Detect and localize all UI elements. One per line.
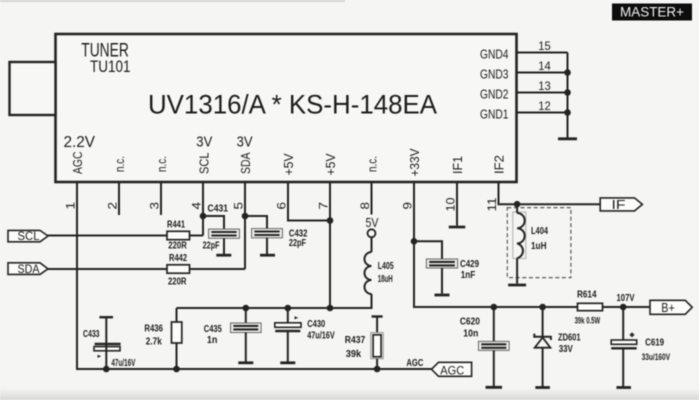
pin 14 wire <box>517 72 568 74</box>
pin 7 wire <box>329 182 331 308</box>
svg-text:11: 11 <box>487 198 499 212</box>
svg-text:1nF: 1nF <box>461 270 476 281</box>
svg-text:B+: B+ <box>661 301 675 315</box>
pin 6 wire to pin 7 <box>288 182 330 221</box>
svg-text:n.c.: n.c. <box>154 156 169 172</box>
svg-text:8: 8 <box>360 202 372 210</box>
junction dot rail C435 <box>243 305 250 312</box>
ground symbol L404 <box>508 284 526 287</box>
svg-text:39k: 39k <box>346 349 362 360</box>
junction dot bus C433 <box>103 366 110 373</box>
wire rail to C619 <box>622 307 624 340</box>
pin 10 wire <box>456 182 458 226</box>
svg-text:C435: C435 <box>204 324 222 335</box>
svg-text:C620: C620 <box>460 317 480 328</box>
svg-text:AGC: AGC <box>406 357 423 369</box>
svg-text:C433: C433 <box>83 329 100 340</box>
pin 8 stub wire <box>371 182 373 215</box>
pin 11 wire to IF <box>499 182 601 204</box>
resistor R442 <box>167 253 190 288</box>
svg-text:SDA: SDA <box>238 152 253 174</box>
pin 3 stub wire <box>160 182 162 215</box>
svg-text:10n: 10n <box>463 329 478 340</box>
gnd bus wire <box>567 53 569 138</box>
svg-text:IF2: IF2 <box>491 155 506 174</box>
svg-text:R437: R437 <box>345 335 366 346</box>
junction dot rail pin7 <box>327 305 334 312</box>
svg-text:12: 12 <box>538 101 551 113</box>
MASTER+ badge <box>612 4 692 21</box>
junction dot gnd bus y=72.5 <box>564 69 571 76</box>
junction dot rail C619 <box>620 304 627 311</box>
svg-text:14: 14 <box>538 61 551 73</box>
svg-text:4: 4 <box>192 201 204 209</box>
svg-text:SCL: SCL <box>18 231 41 243</box>
5V supply terminal <box>366 215 379 237</box>
wire rail to ZD601 <box>542 307 544 337</box>
svg-text:3: 3 <box>150 202 162 210</box>
antenna connector box <box>10 62 56 115</box>
svg-text:GND4: GND4 <box>480 48 509 62</box>
wire C620 to ground <box>493 350 495 386</box>
svg-text:5V: 5V <box>366 215 379 230</box>
SDA input tag <box>8 263 48 276</box>
svg-text:R441: R441 <box>167 219 185 230</box>
svg-text:R436: R436 <box>144 324 163 335</box>
wire C435 to ground <box>245 333 247 362</box>
junction dot pin11 L404 <box>514 201 521 208</box>
svg-text:IF: IF <box>612 198 626 212</box>
wire L405 to left rail and rail to R436 <box>177 294 372 308</box>
pin 5 wire <box>244 182 246 269</box>
wire pin4 to C431 <box>203 216 224 229</box>
junction dot rail C430 <box>285 305 292 312</box>
wire pin5 to C432 <box>245 216 267 229</box>
ground symbol pin10 IF1 <box>449 226 466 229</box>
ground symbol ZD601 <box>535 386 550 389</box>
svg-text:SDA: SDA <box>18 264 40 276</box>
B+ rail right of R614 <box>603 306 651 308</box>
junction dot pin 5 <box>242 213 249 220</box>
pin 13 wire <box>517 92 568 94</box>
svg-text:22pF: 22pF <box>289 238 306 249</box>
svg-text:10: 10 <box>446 198 458 212</box>
svg-text:2.2V: 2.2V <box>64 134 96 151</box>
svg-text:GND2: GND2 <box>480 88 509 102</box>
AGC output tag <box>432 362 472 377</box>
svg-text:22pF: 22pF <box>203 240 220 251</box>
junction dot bus R436 <box>173 366 180 373</box>
wire R436 to bus <box>176 343 178 369</box>
ground symbol C431 <box>216 254 231 257</box>
svg-text:SCL: SCL <box>196 153 211 175</box>
wire rail to C620 <box>493 307 495 341</box>
junction dot pin 4 <box>200 213 207 220</box>
svg-text:C430: C430 <box>307 319 325 330</box>
wire C619 to ground <box>622 349 624 386</box>
svg-text:GND3: GND3 <box>480 68 509 82</box>
svg-text:n.c.: n.c. <box>364 156 379 172</box>
wire rail down to R436 <box>176 308 178 322</box>
tuner TU101 box <box>56 34 517 182</box>
pin 2 stub wire <box>118 182 120 215</box>
capacitor C430 electrolytic <box>275 316 335 341</box>
wire 5V terminal to L405 <box>371 237 373 252</box>
zener diode ZD601 <box>534 332 581 354</box>
capacitor C620 <box>460 317 509 351</box>
resistor R614 <box>575 290 603 326</box>
svg-text:2.7k: 2.7k <box>146 336 162 347</box>
svg-text:1: 1 <box>66 202 78 210</box>
svg-text:220R: 220R <box>168 277 187 288</box>
wire ZD601 to ground <box>542 348 544 387</box>
wire pin9 to C429 <box>414 241 442 259</box>
capacitor C429 <box>426 259 479 281</box>
wire SDA to R442 <box>47 268 167 270</box>
pin 12 wire <box>517 112 568 114</box>
svg-text:47u/16V: 47u/16V <box>307 330 335 341</box>
svg-text:C619: C619 <box>645 338 664 349</box>
ground symbol C435 <box>238 361 253 364</box>
ground symbol C430 <box>280 361 295 364</box>
svg-text:L404: L404 <box>531 226 548 237</box>
capacitor C619 electrolytic <box>611 333 670 362</box>
svg-text:3V: 3V <box>237 135 253 151</box>
dashed box around L404 <box>507 208 571 278</box>
svg-text:GND1: GND1 <box>480 108 509 122</box>
wire R437 to bus <box>376 359 378 369</box>
inductor L404 <box>513 212 549 259</box>
pin 4 wire <box>202 182 204 236</box>
wire R441 to pin 4 <box>190 235 204 237</box>
wire C429 to ground <box>441 268 443 294</box>
svg-text:+33V: +33V <box>407 148 422 176</box>
svg-text:AGC: AGC <box>440 363 464 377</box>
svg-text:2: 2 <box>108 202 120 210</box>
junction dot bus R437 <box>374 366 381 373</box>
wire rail to C435 <box>245 308 247 323</box>
svg-text:47u/16V: 47u/16V <box>111 358 135 369</box>
svg-text:220R: 220R <box>168 241 187 252</box>
svg-text:IF1: IF1 <box>450 156 465 174</box>
svg-text:n.c.: n.c. <box>112 156 127 172</box>
capacitor C435 <box>204 323 261 346</box>
svg-text:1n: 1n <box>207 335 218 346</box>
svg-text:AGC: AGC <box>70 152 85 175</box>
inductor L405 <box>365 252 395 294</box>
svg-text:7: 7 <box>319 202 331 210</box>
svg-text:5: 5 <box>234 202 246 210</box>
ground symbol C432 <box>260 254 275 257</box>
ground symbol gnd bus <box>558 137 577 140</box>
wire L404 top <box>516 204 518 213</box>
capacitor C432 <box>252 228 308 249</box>
svg-text:+5V: +5V <box>281 153 296 175</box>
svg-text:+5V: +5V <box>323 153 338 175</box>
pin 15 wire <box>517 52 568 54</box>
svg-text:1uH: 1uH <box>531 241 547 252</box>
junction dot gnd bus y=112.5 <box>564 109 571 116</box>
svg-text:18uH: 18uH <box>378 274 393 285</box>
svg-text:33u/160V: 33u/160V <box>642 352 671 362</box>
svg-text:6: 6 <box>277 202 289 210</box>
svg-text:UV1316/A * KS-H-148EA: UV1316/A * KS-H-148EA <box>148 90 437 120</box>
junction dot pin9 C429 <box>411 238 418 245</box>
svg-text:TU101: TU101 <box>90 57 131 76</box>
svg-text:C431: C431 <box>208 204 229 215</box>
B+ output tag <box>650 300 692 315</box>
svg-text:107V: 107V <box>617 292 635 304</box>
pin 1 wire and AGC bottom bus <box>77 182 432 369</box>
svg-text:R442: R442 <box>169 253 187 264</box>
capacitor C433 electrolytic <box>83 317 136 369</box>
junction dot rail ZD601 <box>539 304 546 311</box>
wire C433 vertical <box>105 317 107 369</box>
svg-text:R614: R614 <box>577 290 597 301</box>
svg-text:13: 13 <box>538 81 551 93</box>
wire C432 to ground <box>266 238 268 254</box>
resistor R437 with stub bar <box>345 317 383 361</box>
svg-text:3V: 3V <box>196 135 212 151</box>
capacitor C431 <box>203 204 240 252</box>
svg-text:9: 9 <box>403 202 415 210</box>
ground symbol C620 <box>486 386 503 389</box>
svg-text:ZD601: ZD601 <box>558 332 581 343</box>
svg-text:15: 15 <box>538 41 551 53</box>
ground symbol C619 <box>616 386 631 389</box>
IF output tag <box>600 198 642 212</box>
junction dot gnd bus y=92.5 <box>564 89 571 96</box>
pin 9 wire and B+ rail left segment <box>414 182 578 307</box>
wire SCL to R441 <box>47 235 167 237</box>
svg-text:C429: C429 <box>460 259 479 270</box>
junction dot pin6-pin7 <box>327 217 334 224</box>
svg-text:33V: 33V <box>559 344 573 355</box>
resistor R436 <box>144 322 181 347</box>
wire R442 to pin 5 <box>190 268 246 270</box>
wire C430 to ground <box>287 331 289 362</box>
SCL input tag <box>8 230 48 243</box>
wire rail to C430 <box>287 308 289 323</box>
svg-text:39k 0.5W: 39k 0.5W <box>575 316 601 326</box>
ground symbol C429 <box>435 294 450 297</box>
junction dot rail C620 <box>491 304 498 311</box>
wire C431 to ground <box>223 238 225 254</box>
svg-text:MASTER+: MASTER+ <box>620 4 684 20</box>
svg-text:L405: L405 <box>378 261 394 272</box>
resistor R441 <box>167 219 190 251</box>
wire L404 to ground <box>516 258 518 283</box>
